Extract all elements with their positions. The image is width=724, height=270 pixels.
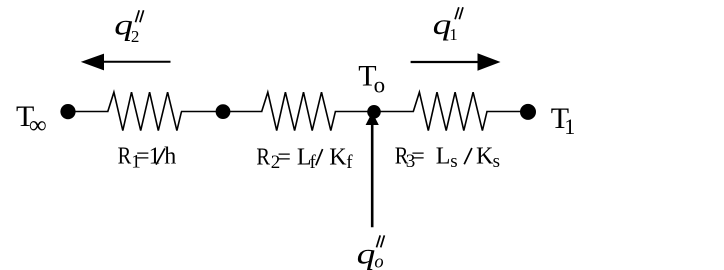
- svg-text:K: K: [329, 144, 347, 170]
- resistor R2: [262, 92, 336, 130]
- node T1 terminal: [520, 104, 536, 120]
- svg-text:=: =: [136, 144, 150, 170]
- svg-text:s: s: [493, 151, 500, 172]
- svg-text:f: f: [346, 152, 353, 173]
- arrow qo (vertical, pointing up into To node): [366, 112, 379, 227]
- svg-text:f: f: [310, 152, 317, 173]
- svg-text:K: K: [476, 143, 494, 169]
- wire: R2 to To node: [335, 111, 414, 113]
- label R3 value: R3= Ls / Ks: [395, 142, 500, 172]
- label T_infinity: [16, 100, 47, 139]
- label R2 value: R2= Lf/ Kf: [256, 143, 353, 173]
- svg-text:1: 1: [149, 144, 161, 170]
- svg-text:h: h: [164, 144, 176, 170]
- resistor R3: [413, 92, 487, 130]
- svg-text:L: L: [436, 143, 451, 169]
- arrow q2 (pointing left): [81, 54, 171, 71]
- node between R1 and R2: [216, 104, 231, 119]
- label q2'' heat flux (left): [114, 9, 143, 46]
- arrow q1 (pointing right): [411, 53, 501, 71]
- wire: T_infinity node to R1: [68, 111, 109, 113]
- node T_infinity terminal: [60, 104, 75, 119]
- svg-text:1: 1: [564, 114, 575, 139]
- wire: R1 to middle node: [181, 111, 263, 113]
- node To: [367, 105, 381, 119]
- svg-text:s: s: [450, 151, 457, 172]
- svg-text:= L: = L: [277, 144, 311, 170]
- label T1: [551, 102, 575, 139]
- label To: [358, 59, 385, 97]
- svg-text:R: R: [118, 142, 132, 169]
- label q1'' heat flux (right): [433, 7, 463, 44]
- svg-text:q: q: [357, 238, 376, 270]
- svg-text:∞: ∞: [29, 112, 47, 139]
- svg-text:R: R: [256, 143, 270, 170]
- resistor R1: [108, 92, 182, 130]
- label qo'' heat flux (bottom): [357, 235, 385, 270]
- svg-text:o: o: [374, 252, 383, 270]
- svg-text:=: =: [411, 143, 425, 169]
- label R1 value: R1=1/h: [118, 142, 177, 172]
- wire: R3 to T1 node: [486, 111, 528, 113]
- svg-text:2: 2: [131, 27, 140, 46]
- svg-text:1: 1: [449, 25, 458, 44]
- svg-text:o: o: [374, 73, 386, 98]
